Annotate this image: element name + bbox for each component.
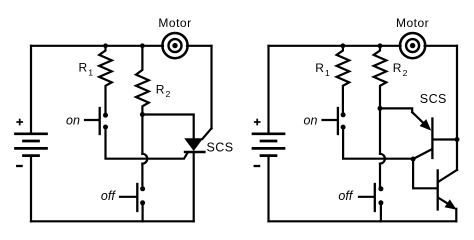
resistor R1 [337,46,350,115]
node A (R1 top junction) [103,43,108,48]
node D (R1 top junction) [341,43,346,48]
wire left vertical lower [267,156,269,222]
svg-text:2: 2 [403,68,408,78]
svg-text:on: on [66,114,80,128]
node G (Q1 base / right rail junction) [455,137,460,142]
motor M1 [162,33,187,58]
wire top-left horizontal (battery+ to motor) [269,45,401,47]
resistor R2 [136,46,149,115]
wire Q2 emitter to bottom rail [455,209,457,222]
wire hop (crossover) [380,154,385,164]
resistor R2 [374,46,387,109]
wire off switch to bottom rail [142,203,144,222]
wire right vertical (motor to Q2 collector) [456,46,458,170]
wire top-left horizontal (battery+ to motor) [31,45,163,47]
wire bottom rail [31,220,194,222]
battery B2 [253,134,284,156]
wire left vertical upper [267,46,269,134]
wire Q1 collector to Q2 base [413,159,437,188]
wire R2 down with hop over gate wire [141,115,143,154]
svg-text:Motor: Motor [158,16,191,30]
svg-text:SCS: SCS [207,141,234,155]
wire hop to off switch [141,164,143,189]
transistor Q2 (NPN) [438,170,457,210]
svg-text:1: 1 [88,67,93,77]
battery minus label [17,165,21,167]
node F (R2 bottom junction) [378,106,383,111]
node E (R2 top junction) [378,43,383,48]
wire hop to off switch [379,164,381,189]
wire right vertical (motor to SCS anode gate) [210,46,212,129]
wire off switch to bottom rail [380,203,382,222]
wire R2 down with hop over gate wire [379,108,381,153]
resistor R1 [99,46,112,115]
wire motor right to top-right corner [425,45,457,47]
pushbutton switch ON [85,108,108,134]
wire bottom rail [269,220,457,222]
svg-text:on: on [304,114,318,128]
wire hop (crossover) [142,154,147,164]
node C (R2 bottom junction) [140,112,145,117]
wire SCS anode from node C [142,115,193,140]
wire left vertical lower (battery bottom to bottom rail) [30,156,32,222]
svg-text:R: R [79,61,88,75]
battery B1 [16,134,47,156]
svg-text:Motor: Motor [396,16,429,30]
pushbutton switch OFF [359,184,383,211]
svg-text:SCS: SCS [420,92,447,106]
node B (R2 top junction) [140,43,145,48]
transistor Q1 (PNP) [412,112,457,159]
svg-text:R: R [156,83,165,97]
SCS thyristor U1 [185,128,212,221]
wire motor right to top-right corner [187,45,212,47]
svg-text:off: off [101,189,116,203]
svg-text:off: off [338,189,353,203]
battery plus label [17,120,22,125]
battery minus label [255,165,259,167]
pushbutton switch ON [323,108,346,134]
motor M2 [400,33,425,58]
node H (gate / Q1 collector junction) [411,157,416,162]
svg-text:1: 1 [325,68,330,78]
wire on-switch to cathode gate [106,127,188,159]
svg-text:R: R [393,61,402,75]
svg-text:R: R [315,61,324,75]
pushbutton switch OFF [120,184,145,211]
wire R2 node to Q1 emitter [380,108,412,112]
wire left vertical upper (to battery top plate) [30,46,32,134]
wire on-switch to gate node [343,127,413,159]
svg-text:2: 2 [166,89,171,99]
battery plus label [255,120,260,125]
